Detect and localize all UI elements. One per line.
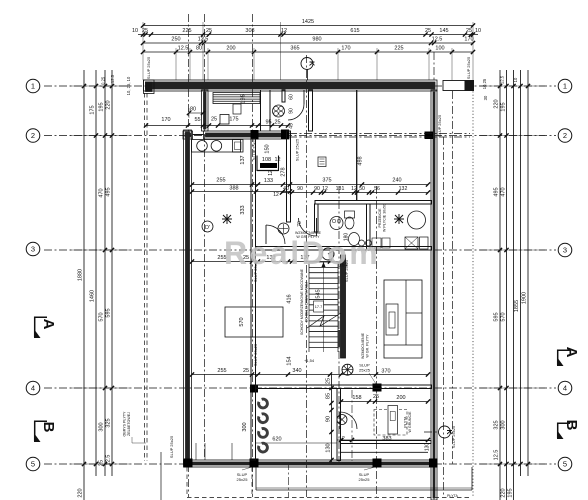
svg-text:1855: 1855 [514, 300, 520, 312]
svg-text:570: 570 [99, 312, 105, 321]
svg-text:375: 375 [322, 178, 331, 184]
svg-text:SCHODY MODRZEWIOWE MOCOWANE: SCHODY MODRZEWIOWE MOCOWANE [300, 268, 304, 335]
svg-text:K: K [308, 61, 315, 66]
svg-text:10,25: 10,25 [101, 76, 106, 87]
svg-text:55: 55 [194, 117, 200, 123]
svg-text:DO BELKI DREWNIANEJ: DO BELKI DREWNIANEJ [305, 282, 309, 323]
left dim line 1 total 1880 [83, 70, 85, 500]
window square symbol in dim row [220, 115, 229, 125]
svg-text:95: 95 [265, 120, 271, 126]
overhang dashed vertical below x187 [186, 467, 188, 497]
bottom bath divider x337 [337, 389, 341, 461]
axis bubble 1 right [558, 79, 572, 93]
svg-text:80: 80 [190, 107, 196, 113]
porch dim row y125.5 [146, 125, 288, 127]
vertical axis line stairs wall [338, 186, 340, 464]
left exterior wall thick [184, 130, 192, 465]
corridor thin wall x287-291 [287, 131, 291, 222]
right horizontal extension lines [480, 85, 545, 87]
staircase handrail bar [338, 330, 341, 347]
axis line 5 horizontal [44, 463, 556, 465]
axis bubble 3 right [558, 243, 572, 257]
right exterior wall thick [431, 90, 437, 500]
shower enclosure lines bottom bath [195, 443, 197, 460]
extension line x161 bottom left [160, 452, 162, 500]
svg-text:278: 278 [281, 167, 287, 176]
svg-text:30: 30 [483, 95, 488, 100]
left dim line 2 [95, 70, 97, 476]
right wall top column [425, 132, 434, 140]
svg-text:220: 220 [501, 488, 507, 497]
svg-text:4: 4 [31, 384, 35, 393]
svg-text:300: 300 [99, 422, 105, 431]
svg-text:595: 595 [494, 312, 500, 321]
svg-text:154: 154 [287, 356, 293, 365]
svg-text:25: 25 [373, 394, 379, 400]
vertical axis line closet wall [204, 14, 206, 460]
svg-text:SLUP 25x25: SLUP 25x25 [295, 138, 300, 161]
axis bubble 5 left [26, 457, 40, 471]
svg-text:10: 10 [475, 28, 481, 34]
top-left wall end cap [144, 80, 155, 94]
small bath toilet [345, 211, 355, 218]
left dim line 3 [104, 70, 106, 476]
svg-text:17.7: 17.7 [315, 305, 322, 309]
circled cross symbol bath door [278, 223, 289, 234]
svg-text:25x25: 25x25 [237, 477, 249, 482]
svg-text:108: 108 [262, 157, 271, 163]
axis bubble 5 right [558, 457, 572, 471]
svg-text:495: 495 [106, 187, 112, 196]
svg-text:1900: 1900 [522, 292, 528, 304]
svg-text:195: 195 [508, 488, 514, 497]
dim row y374 [192, 374, 428, 376]
bottom room door arc [340, 412, 357, 429]
svg-text:PŁYTA: PŁYTA [404, 416, 408, 428]
svg-text:130: 130 [326, 443, 332, 452]
svg-text:10: 10 [513, 77, 518, 82]
svg-text:595: 595 [106, 308, 112, 317]
column at corridor top [281, 130, 289, 140]
closet divider thin x270 [269, 90, 271, 131]
svg-text:25: 25 [466, 28, 472, 34]
svg-text:+1,54: +1,54 [304, 358, 315, 363]
right dim line 3 [513, 70, 515, 500]
tech room small circles [359, 240, 365, 246]
svg-text:25: 25 [206, 28, 212, 34]
roof overhang line far right [472, 85, 474, 497]
bottom wall column right [429, 459, 438, 468]
small bath bidet [349, 233, 360, 246]
svg-text:170: 170 [161, 117, 170, 123]
svg-text:365: 365 [290, 46, 299, 52]
stairs right thick wall [341, 255, 346, 358]
wardrobe louver top room [213, 93, 260, 104]
axis bubble 4 right [558, 381, 572, 395]
svg-text:12: 12 [322, 186, 328, 192]
svg-text:300: 300 [501, 420, 507, 429]
svg-text:255: 255 [217, 368, 226, 374]
svg-text:158: 158 [352, 395, 361, 401]
svg-text:170: 170 [341, 46, 350, 52]
vertical dim x332 bottom room [331, 374, 333, 462]
svg-text:383: 383 [382, 436, 391, 442]
upper floor outline double dashdot [289, 133, 470, 135]
axis bubble 4 left [26, 381, 40, 395]
section bubble K top [301, 58, 313, 70]
svg-text:90: 90 [314, 186, 320, 192]
svg-text:133: 133 [264, 178, 273, 184]
slab zone dashed rect bottom room [374, 410, 407, 436]
svg-text:620: 620 [272, 437, 281, 443]
svg-text:10,25: 10,25 [482, 78, 487, 89]
top dimension chain row 3 [143, 42, 473, 44]
right dim line 5 total 1900 [527, 70, 529, 476]
svg-text:498: 498 [358, 156, 364, 165]
tech room washer 2 [420, 237, 429, 249]
axis bubble 2 right [558, 129, 572, 143]
svg-text:195: 195 [241, 94, 247, 103]
svg-text:12: 12 [339, 436, 345, 442]
svg-text:1: 1 [31, 82, 35, 91]
svg-text:PRZEBICIE: PRZEBICIE [378, 208, 382, 228]
bottom room fan circle [337, 415, 347, 425]
kitchen counter [192, 140, 241, 153]
section bubble K bottom right [439, 426, 451, 438]
axis line 1 horizontal [44, 85, 556, 87]
svg-text:195: 195 [99, 102, 105, 111]
svg-text:195: 195 [501, 102, 507, 111]
svg-text:25x25: 25x25 [359, 368, 371, 373]
svg-text:90: 90 [297, 186, 303, 192]
axis bubble 1 left [26, 79, 40, 93]
svg-text:SLUP 25x25: SLUP 25x25 [253, 343, 258, 366]
svg-text:388: 388 [229, 186, 238, 192]
roof overhang dashed bottom [187, 497, 472, 499]
svg-text:90: 90 [289, 108, 295, 114]
svg-text:220: 220 [106, 100, 112, 109]
bath bottom thin wall y247 [256, 247, 432, 251]
svg-text:370: 370 [381, 369, 390, 375]
svg-text:470: 470 [99, 188, 105, 197]
svg-text:10, 25, 10: 10, 25, 10 [126, 76, 131, 95]
right dim line 4 total 1855 [520, 70, 522, 476]
svg-text:170: 170 [464, 37, 473, 43]
top dimension chain row 2 [138, 34, 478, 36]
svg-text:B: B [563, 420, 580, 431]
terrace slab hatch band [256, 487, 472, 489]
roof overhang dashed line left [144, 93, 146, 461]
bottom wall column left [184, 459, 193, 468]
bottom wall column x376 [373, 459, 382, 468]
svg-text:200: 200 [226, 46, 235, 52]
svg-text:340: 340 [292, 368, 301, 374]
axis line 3 horizontal [44, 249, 556, 251]
tech room washer 1 [405, 237, 418, 249]
kitchen sink bowl 2 [211, 141, 222, 152]
living dim row y192 [282, 192, 428, 194]
closet door arc [288, 104, 304, 120]
wardrobe small box [233, 104, 241, 114]
svg-text:250: 250 [171, 37, 180, 43]
section marker B left [35, 421, 47, 441]
bottom wall column spine [250, 459, 259, 468]
svg-text:3: 3 [31, 245, 35, 254]
kitchen dim row y184 [192, 184, 290, 186]
svg-text:SLUP 25x25: SLUP 25x25 [169, 435, 174, 458]
svg-text:980: 980 [312, 37, 321, 43]
svg-text:50: 50 [359, 186, 365, 192]
svg-text:PŁYTA: PŁYTA [447, 494, 458, 498]
vertical axis line K [306, 55, 308, 497]
svg-text:25: 25 [99, 460, 105, 466]
column x376 at wall y388 [373, 384, 382, 392]
svg-text:333: 333 [240, 205, 246, 214]
bath left thin wall x315 [315, 204, 319, 232]
kitchen top wall thick left piece [183, 131, 193, 139]
svg-text:240: 240 [392, 178, 401, 184]
svg-text:150: 150 [265, 144, 271, 153]
svg-text:1: 1 [563, 82, 567, 91]
bath top thin wall y200 [315, 201, 432, 205]
svg-text:WZMOCNIENIE: WZMOCNIENIE [361, 332, 365, 359]
svg-text:SLUP 25x25: SLUP 25x25 [437, 114, 442, 137]
small bath sink circle [330, 217, 343, 230]
slab opening tall box [388, 406, 398, 435]
svg-text:2: 2 [563, 131, 567, 140]
top wall right outlined lintel segment [443, 81, 465, 91]
porch mini dim 80 [189, 112, 203, 114]
svg-text:B: B [40, 422, 57, 433]
closet thin wall right x260 [260, 90, 262, 131]
svg-text:RealDom: RealDom [224, 235, 380, 271]
axis bubble 3 left [26, 242, 40, 256]
svg-text:570: 570 [501, 312, 507, 321]
dim 620 bath bottom [256, 442, 337, 444]
staircase label box [314, 301, 324, 312]
bottom rooms top wall y385 [256, 385, 432, 389]
svg-text:325: 325 [106, 418, 112, 427]
sofa group [384, 280, 422, 358]
svg-text:SLUP 25x25: SLUP 25x25 [466, 56, 471, 79]
svg-text:225: 225 [182, 28, 191, 34]
vestibule wall vertical thick [202, 90, 209, 131]
corridor axis dashdot below wall [288, 462, 290, 497]
svg-text:25: 25 [425, 28, 431, 34]
kitchen dim row y191 total [192, 191, 290, 193]
svg-text:12.5: 12.5 [500, 75, 505, 84]
svg-text:SLUP 25x25: SLUP 25x25 [252, 137, 257, 160]
electrical box living [318, 157, 326, 167]
svg-text:2: 2 [31, 131, 35, 140]
axis line 2 horizontal [44, 135, 556, 137]
vent fan circle top [273, 105, 285, 117]
wall stub right of closet door [309, 90, 313, 131]
spine thin wall x251-255 [251, 139, 256, 460]
top dimension chain row 4 [143, 51, 473, 53]
kitchen sink bowl 1 [197, 141, 208, 152]
column spine at wall y388 [250, 385, 258, 393]
bottom exterior wall thick [184, 460, 438, 467]
svg-text:1460: 1460 [90, 290, 96, 302]
svg-text:225: 225 [394, 46, 403, 52]
svg-text:12.5: 12.5 [178, 46, 189, 52]
svg-text:25: 25 [243, 368, 249, 374]
right dim line 2 [506, 70, 508, 500]
left dim line 4 [111, 70, 113, 476]
svg-text:495: 495 [494, 187, 500, 196]
svg-text:25x25: 25x25 [359, 477, 371, 482]
door marker D-prime circle [202, 221, 213, 232]
tech room round table [408, 211, 426, 229]
svg-text:12.5: 12.5 [432, 37, 443, 43]
svg-text:416: 416 [287, 294, 293, 303]
svg-text:W PŁYCIE 30x50: W PŁYCIE 30x50 [383, 204, 387, 232]
staircase treads [309, 261, 338, 263]
svg-text:12.5: 12.5 [494, 450, 500, 461]
svg-text:131: 131 [336, 186, 345, 192]
svg-text:25: 25 [326, 378, 332, 384]
kitchen top wall thick right piece [204, 131, 290, 139]
lamp X symbol kitchen [222, 214, 232, 224]
svg-text:40: 40 [283, 186, 289, 192]
svg-text:100: 100 [435, 46, 444, 52]
svg-text:5: 5 [563, 460, 567, 469]
section K dashdot line right [443, 137, 445, 497]
svg-text:300: 300 [242, 422, 248, 431]
top wall right end column [465, 80, 475, 91]
svg-text:4: 4 [563, 384, 567, 393]
svg-text:255: 255 [216, 178, 225, 184]
small bath door arc [299, 218, 317, 236]
svg-text:570: 570 [239, 317, 245, 326]
svg-text:25: 25 [274, 120, 280, 126]
svg-text:130: 130 [425, 443, 431, 452]
left horizontal extension lines [70, 85, 130, 87]
shower tray black bar [260, 163, 277, 168]
corridor wall stub x283 [282, 90, 285, 102]
section marker A left [35, 317, 47, 337]
svg-text:D': D' [205, 225, 210, 231]
svg-text:SLUP 25x25: SLUP 25x25 [451, 425, 456, 448]
spiral drain symbol stairs top [322, 248, 334, 260]
svg-text:90: 90 [326, 416, 332, 422]
svg-text:W GRUNCIE: W GRUNCIE [408, 411, 412, 433]
svg-text:308: 308 [245, 28, 254, 34]
svg-text:470: 470 [501, 187, 507, 196]
top dimension chain row 1 total 1425 [143, 25, 473, 27]
svg-text:325: 325 [494, 420, 500, 429]
svg-text:45: 45 [289, 123, 295, 129]
sofa coffee table [386, 304, 398, 335]
fan circle near stairs bottom [342, 364, 353, 375]
svg-text:220: 220 [494, 99, 500, 108]
axis bubble 2 left [26, 129, 40, 143]
svg-text:12.5: 12.5 [110, 74, 115, 83]
tech room lamp X [394, 214, 404, 224]
svg-text:ŻELBETOWEJ: ŻELBETOWEJ [126, 412, 131, 436]
svg-text:12.5: 12.5 [106, 455, 112, 466]
section marker B right [558, 423, 570, 438]
dim row y401 [341, 401, 428, 403]
lower terrace slab edge [255, 467, 257, 490]
entrance door leaf in gap [193, 134, 204, 136]
svg-text:200: 200 [396, 395, 405, 401]
kitchen hob [233, 140, 244, 153]
bath C-ring fixtures [259, 399, 268, 408]
svg-text:60: 60 [289, 94, 295, 100]
top dimension extension lines [142, 22, 144, 80]
bath door arc kitchen side [266, 225, 285, 244]
svg-text:220: 220 [78, 488, 84, 497]
vertical axis line spine wall [252, 14, 254, 497]
svg-text:132: 132 [399, 186, 408, 192]
svg-text:12: 12 [273, 192, 279, 198]
svg-text:3: 3 [563, 246, 567, 255]
svg-text:10: 10 [132, 28, 138, 34]
svg-text:12: 12 [274, 157, 280, 163]
dim row y261 [192, 261, 340, 263]
svg-text:A: A [563, 347, 580, 358]
svg-text:80: 80 [196, 46, 202, 52]
dim row y440 [337, 439, 428, 441]
svg-text:175: 175 [229, 117, 238, 123]
svg-text:SLUP 25x25: SLUP 25x25 [146, 56, 151, 79]
vertical axis line column 376 [376, 186, 378, 497]
bench line bottom room [341, 451, 428, 453]
interior wall x356 living [356, 90, 358, 201]
axis line 4 horizontal [44, 387, 556, 389]
svg-text:W GR. PŁYTY: W GR. PŁYTY [366, 334, 370, 358]
right dim line 1 [499, 70, 501, 500]
svg-text:56: 56 [374, 186, 380, 192]
svg-text:145: 145 [439, 28, 448, 34]
bottom room divider y441 [341, 441, 432, 444]
top exterior wall [144, 80, 438, 91]
svg-text:175: 175 [90, 105, 96, 114]
svg-text:1880: 1880 [78, 269, 84, 281]
shower niche outline [256, 156, 258, 172]
vertical axis line right wall [433, 52, 435, 500]
svg-text:137: 137 [240, 155, 246, 164]
vertical axis line left wall [188, 14, 190, 497]
svg-text:25: 25 [211, 117, 217, 123]
svg-text:12: 12 [281, 28, 287, 34]
roof overhang dotted line right inner [452, 91, 454, 465]
section marker A right [558, 350, 570, 365]
tech room bench rects [372, 238, 381, 248]
svg-text:A: A [40, 319, 57, 330]
svg-text:OBRYS PŁYTY: OBRYS PŁYTY [123, 411, 127, 437]
svg-text:615: 615 [350, 28, 359, 34]
column at spine top [251, 130, 259, 140]
staircase break line [307, 313, 341, 328]
living dim row y184 right [290, 184, 428, 186]
svg-text:1425: 1425 [302, 19, 314, 25]
overhang dashed vertical below x252 [251, 467, 253, 497]
svg-text:5: 5 [31, 460, 35, 469]
dining table [225, 307, 283, 337]
bath divider thin wall x367 [367, 204, 371, 250]
vertical dashdot x352 bottom room [351, 390, 353, 461]
svg-text:85: 85 [326, 393, 332, 399]
